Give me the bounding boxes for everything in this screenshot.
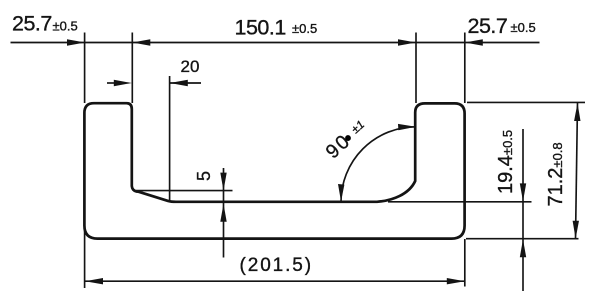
svg-text:±0.5: ±0.5 bbox=[511, 20, 536, 35]
svg-text:5: 5 bbox=[194, 171, 214, 181]
svg-text:25.7: 25.7 bbox=[12, 12, 52, 36]
svg-text:±0.5: ±0.5 bbox=[292, 21, 317, 36]
svg-text:25.7: 25.7 bbox=[468, 14, 508, 38]
svg-text:20: 20 bbox=[181, 57, 200, 76]
svg-text:(201.5): (201.5) bbox=[240, 255, 314, 276]
svg-text:150.1: 150.1 bbox=[235, 16, 286, 40]
svg-text:±0.5: ±0.5 bbox=[53, 19, 78, 34]
